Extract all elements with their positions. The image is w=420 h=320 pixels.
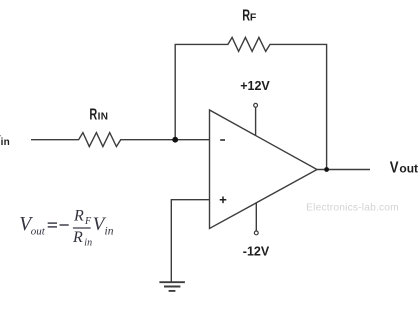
svg-text:in: in — [84, 238, 92, 249]
svg-text:F: F — [250, 12, 257, 24]
svg-text:IN: IN — [98, 112, 109, 123]
svg-text:-12V: -12V — [243, 245, 270, 259]
svg-text:R: R — [89, 106, 97, 123]
svg-text:Electronics-lab.com: Electronics-lab.com — [306, 202, 399, 213]
svg-text:out: out — [399, 161, 418, 175]
svg-text:in: in — [105, 226, 114, 238]
svg-text:R: R — [73, 208, 84, 225]
svg-text:R: R — [72, 229, 83, 246]
svg-text:+12V: +12V — [240, 79, 270, 93]
svg-text:V: V — [390, 159, 399, 176]
svg-text:F: F — [84, 216, 92, 227]
svg-text:out: out — [31, 226, 46, 238]
svg-text:in: in — [1, 137, 11, 148]
